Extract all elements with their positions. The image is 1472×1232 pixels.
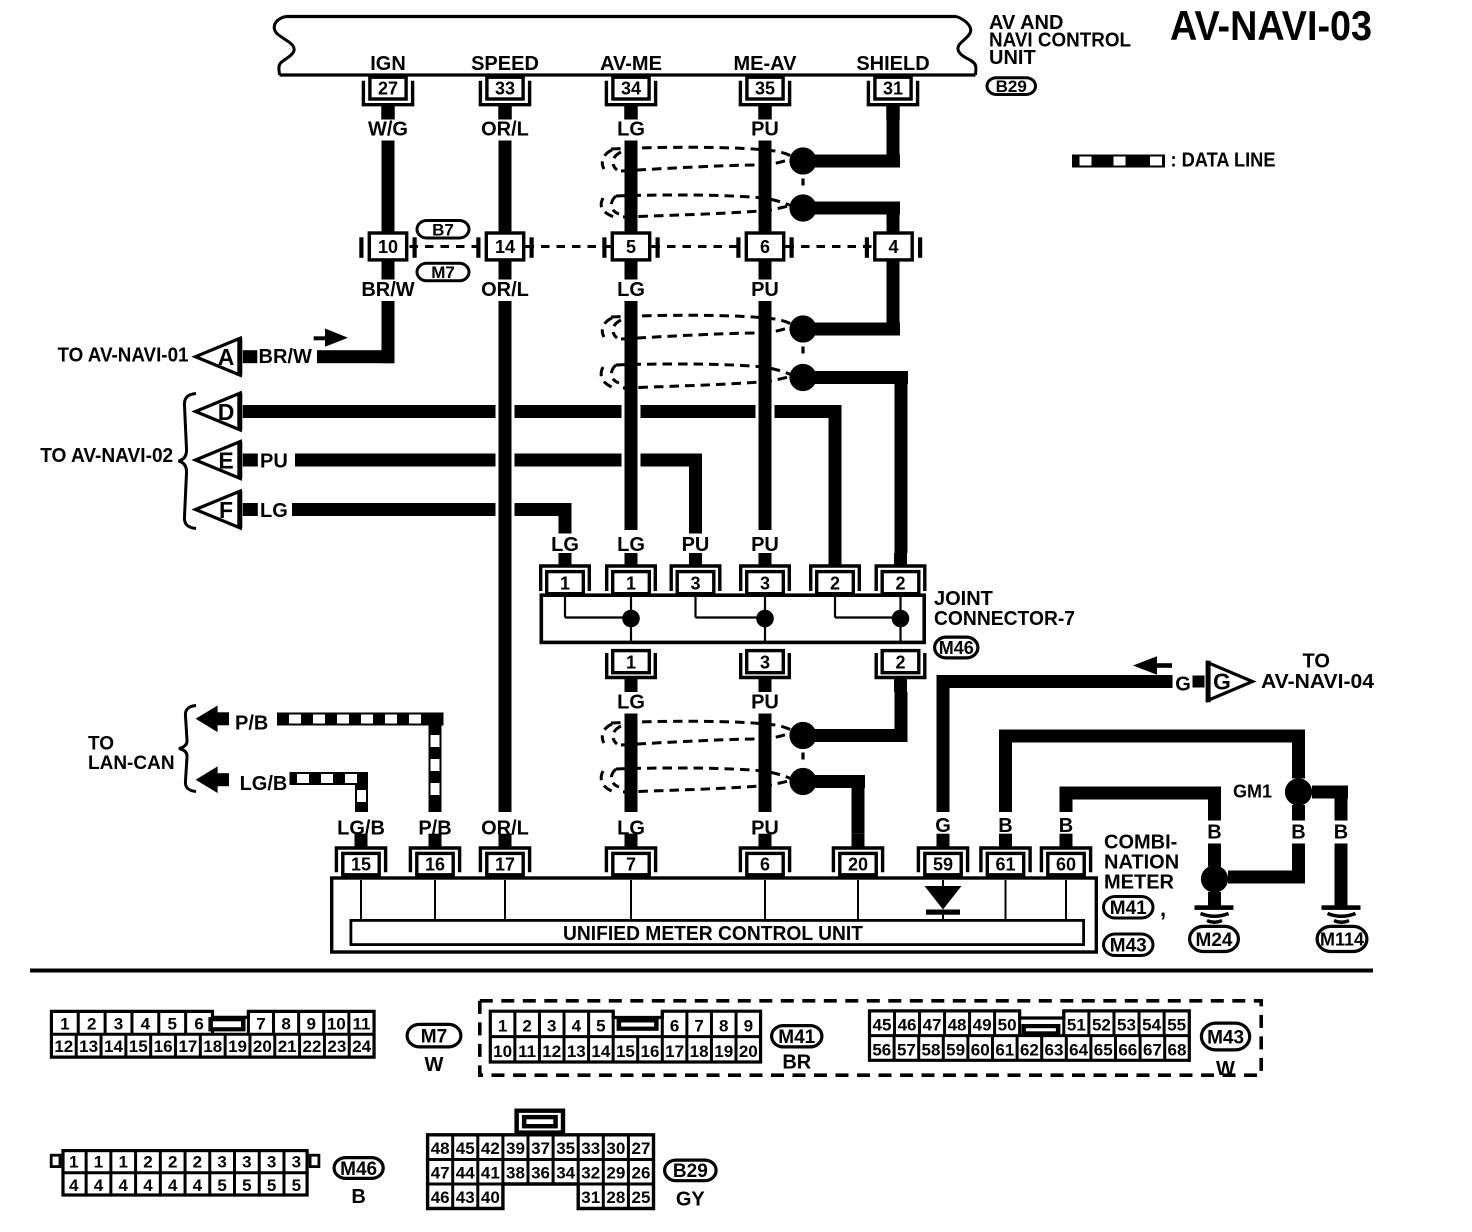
svg-text:11: 11: [352, 1014, 370, 1033]
svg-text:B: B: [1334, 822, 1348, 844]
joint connector top pin 1: [541, 553, 590, 594]
svg-text:M46: M46: [939, 638, 974, 658]
svg-text:20: 20: [253, 1037, 272, 1056]
svg-text:SPEED: SPEED: [471, 53, 539, 75]
shield junction dot E: [789, 722, 816, 749]
svg-text:14: 14: [591, 1042, 610, 1061]
svg-text:4: 4: [888, 237, 898, 257]
svg-text:W/G: W/G: [368, 119, 408, 141]
joint connector top pin 3: [741, 553, 790, 594]
svg-text:62: 62: [1020, 1040, 1039, 1059]
svg-text:49: 49: [973, 1016, 992, 1035]
svg-text:B29: B29: [996, 77, 1027, 96]
svg-text:48: 48: [431, 1139, 450, 1158]
svg-text:32: 32: [581, 1164, 600, 1183]
svg-text:12: 12: [542, 1042, 561, 1061]
wire D horizontal: [243, 405, 842, 418]
svg-text:63: 63: [1045, 1040, 1064, 1059]
junction dot M24: [1201, 865, 1228, 892]
svg-text:30: 30: [606, 1139, 625, 1158]
svg-text:D: D: [218, 399, 235, 425]
svg-text:7: 7: [694, 1017, 703, 1036]
wire PU from joint connector to meter pin 6: [759, 713, 772, 813]
svg-text:46: 46: [898, 1016, 917, 1035]
joint connector internal junction dot 1: [622, 610, 640, 628]
svg-text:1: 1: [94, 1152, 103, 1171]
svg-text:5: 5: [167, 1014, 176, 1033]
connector pin 33 on B29: [480, 77, 529, 119]
shield wire pin 4 down to tube2: [887, 261, 900, 329]
shield wire joint pin 2 down: [895, 692, 908, 742]
svg-text:SHIELD: SHIELD: [856, 53, 929, 75]
joint connector internal junction dot 2: [892, 610, 910, 628]
wire label PU at x=765: [747, 817, 783, 840]
inline connector pin 4 (B7/M7): [865, 233, 922, 260]
svg-text:42: 42: [481, 1139, 500, 1158]
wire label B at x=1066: [1054, 815, 1078, 838]
meter connector pin 59: [918, 834, 967, 875]
connector oval M46: [935, 637, 978, 658]
meter connector pin 6: [740, 834, 789, 875]
shield wire tube2 dot1 horizontal: [803, 323, 900, 336]
svg-text:39: 39: [506, 1139, 525, 1158]
AV and NAVI control unit strip outline: [274, 17, 976, 76]
svg-text:6: 6: [194, 1014, 203, 1033]
wire label LG at x=631: [613, 534, 649, 557]
wire label LG at x=631: [613, 118, 649, 141]
connector oval M43: [1104, 934, 1154, 957]
svg-text:PU: PU: [751, 534, 779, 556]
wire B from pin 60: [1060, 787, 1222, 813]
brace for AV-NAVI-02 arrows: [179, 394, 197, 529]
meter connector pin 61: [981, 834, 1030, 875]
svg-text:LG: LG: [617, 692, 645, 714]
wire B GM1 dot to M114: [1312, 786, 1348, 908]
connector pin 31 on B29: [868, 77, 917, 119]
diode at pin 59: [925, 880, 962, 919]
wire label B at x=1005.5: [994, 815, 1018, 838]
svg-text:UNIT: UNIT: [989, 47, 1036, 69]
svg-text:CONNECTOR-7: CONNECTOR-7: [934, 608, 1075, 630]
data wire LG/B horizontal: [290, 772, 369, 785]
wire LG from joint connector to pin 7: [625, 713, 638, 813]
svg-text:59: 59: [933, 855, 953, 875]
svg-text:6: 6: [760, 237, 770, 257]
wire label B at x=1341: [1329, 821, 1353, 844]
wire PU from pin 35 to pin 6: [759, 140, 772, 232]
inline pin lower stub: [759, 262, 772, 280]
shield wire tube3 dot2 horizontal: [803, 775, 865, 788]
wire LG from pin 5 to joint connector pin 1: [625, 301, 638, 530]
inline connector pin 6 (B7/M7): [736, 233, 793, 260]
shield tube 3 (lower twisted pair): [601, 721, 797, 792]
svg-text:6: 6: [760, 855, 770, 875]
svg-text:,: ,: [1160, 896, 1166, 921]
wire label OR/L at x=505: [478, 118, 532, 141]
connector pin 34 on B29: [606, 77, 655, 119]
combination meter box: [332, 878, 1097, 952]
svg-text:34: 34: [621, 79, 641, 99]
wire B M24 dot to ground: [1208, 892, 1221, 907]
svg-text:10: 10: [493, 1042, 512, 1061]
shield junction dot C: [789, 315, 816, 342]
wire BR/W horizontal to arrow A: [317, 350, 395, 363]
svg-text:TO: TO: [1303, 651, 1330, 673]
data line legend symbol: [1072, 155, 1165, 168]
svg-text:1: 1: [60, 1014, 69, 1033]
svg-text:9: 9: [744, 1017, 753, 1036]
svg-text:LG: LG: [617, 279, 645, 301]
inline pin lower stub: [625, 262, 638, 280]
svg-text:M24: M24: [1196, 930, 1233, 951]
wire label PU at x=695.5: [678, 534, 714, 557]
svg-text:36: 36: [531, 1164, 550, 1183]
wire B GM1 below dot: [1292, 805, 1305, 884]
ground oval M24: [1190, 926, 1239, 951]
svg-text:4: 4: [94, 1176, 104, 1195]
svg-text:3: 3: [217, 1152, 226, 1171]
svg-text:12: 12: [54, 1037, 73, 1056]
arrow A wire stub: [243, 350, 257, 363]
svg-text:M46: M46: [340, 1159, 377, 1180]
connector pinout table M41: [490, 1011, 760, 1062]
svg-text:46: 46: [431, 1188, 450, 1207]
shield tube 2 dot link: [801, 347, 804, 359]
svg-text:3: 3: [760, 574, 770, 594]
joint connector bottom pin 1: [607, 651, 656, 692]
joint connector internal junction dot 3: [756, 610, 774, 628]
meter connector pin 60: [1041, 834, 1090, 875]
svg-text:OR/L: OR/L: [481, 279, 529, 301]
svg-text:5: 5: [217, 1176, 226, 1195]
joint connector internal links: [565, 597, 901, 642]
svg-text:20: 20: [739, 1042, 758, 1061]
connector oval B29: [987, 77, 1036, 96]
svg-text:61: 61: [995, 1040, 1014, 1059]
svg-text:22: 22: [303, 1037, 322, 1056]
wire OR/L from pin 14 to pin 17: [499, 301, 512, 812]
svg-text:3: 3: [114, 1014, 123, 1033]
svg-text:PU: PU: [751, 119, 779, 141]
wire G stub at arrow: [1193, 676, 1205, 688]
svg-text:LG: LG: [617, 119, 645, 141]
svg-text:29: 29: [606, 1164, 625, 1183]
svg-text:67: 67: [1143, 1040, 1162, 1059]
svg-text:55: 55: [1167, 1016, 1186, 1035]
svg-text:5: 5: [267, 1176, 276, 1195]
wire B from pin 61: [999, 730, 1305, 813]
svg-text:27: 27: [631, 1139, 650, 1158]
svg-text:G: G: [1213, 669, 1231, 695]
svg-text:65: 65: [1094, 1040, 1113, 1059]
svg-text:3: 3: [690, 574, 700, 594]
arrow LG/B to LAN-CAN: [196, 766, 229, 793]
svg-text:M7: M7: [421, 1026, 447, 1047]
svg-text:26: 26: [631, 1164, 650, 1183]
svg-text:PU: PU: [682, 534, 710, 556]
wire label LG at x=631: [613, 817, 649, 840]
svg-text:METER: METER: [1104, 872, 1175, 894]
shield wire from pin 31 down: [887, 119, 900, 168]
ground oval M114: [1317, 926, 1367, 951]
svg-text:60: 60: [971, 1040, 990, 1059]
svg-text:4: 4: [141, 1014, 151, 1033]
svg-text:54: 54: [1142, 1016, 1161, 1035]
svg-text:28: 28: [606, 1188, 625, 1207]
svg-text:W: W: [1216, 1058, 1235, 1080]
data wire P/B vertical: [429, 726, 442, 813]
wire G horizontal: [937, 675, 1173, 688]
inline pin lower stub: [382, 262, 395, 280]
junction dot GM1: [1285, 778, 1312, 805]
unit name AV AND NAVI CONTROL UNIT: [989, 12, 1131, 69]
connector oval M46 (table): [334, 1158, 383, 1180]
wire E horizontal: [295, 454, 702, 467]
svg-text:3: 3: [242, 1152, 251, 1171]
svg-text:59: 59: [946, 1040, 965, 1059]
svg-text:37: 37: [531, 1139, 550, 1158]
wire LG from pin 34 to pin 5: [625, 140, 638, 232]
svg-text:M43: M43: [1110, 936, 1147, 957]
svg-text:21: 21: [278, 1037, 297, 1056]
svg-text:GY: GY: [676, 1189, 706, 1211]
svg-text:1: 1: [69, 1152, 78, 1171]
data wire LG/B vertical: [355, 785, 368, 812]
svg-text:ME-AV: ME-AV: [734, 53, 798, 75]
wire label B at x=1214.5: [1203, 821, 1227, 844]
shield wire dot2 horizontal: [803, 202, 900, 215]
shield tube 3 dot link: [801, 753, 804, 765]
joint connector bottom pin 3: [741, 651, 790, 692]
svg-text:9: 9: [306, 1014, 315, 1033]
joint connector top pin 2: [811, 553, 860, 594]
svg-text:13: 13: [79, 1037, 98, 1056]
svg-text:47: 47: [431, 1164, 450, 1183]
svg-text:JOINT: JOINT: [934, 588, 993, 610]
text TO LAN-CAN: [88, 734, 175, 775]
svg-text:E: E: [218, 447, 233, 473]
svg-text:64: 64: [1069, 1040, 1088, 1059]
svg-text:3: 3: [760, 653, 770, 673]
connector oval M41: [1104, 897, 1154, 920]
inline pin lower stub: [499, 262, 512, 280]
svg-text:16: 16: [641, 1042, 660, 1061]
svg-text:LG/B: LG/B: [240, 773, 288, 795]
svg-text:17: 17: [665, 1042, 684, 1061]
svg-text:2: 2: [895, 574, 905, 594]
svg-text:2: 2: [522, 1017, 531, 1036]
svg-text:LAN-CAN: LAN-CAN: [88, 753, 175, 774]
text JOINT CONNECTOR-7: [934, 588, 1075, 630]
svg-text:56: 56: [872, 1040, 891, 1059]
svg-text:24: 24: [352, 1037, 371, 1056]
svg-text:34: 34: [556, 1164, 575, 1183]
svg-text:F: F: [219, 497, 233, 523]
connector oval B7: [417, 220, 469, 239]
svg-text:14: 14: [104, 1037, 123, 1056]
wire BR/W from pin 10 down: [382, 301, 395, 363]
svg-text:1: 1: [560, 574, 570, 594]
wire label OR/L at x=505: [478, 817, 532, 840]
svg-text:PU: PU: [751, 692, 779, 714]
wire F horizontal: [292, 503, 572, 516]
svg-text:4: 4: [69, 1176, 79, 1195]
svg-text:19: 19: [228, 1037, 247, 1056]
svg-text:6: 6: [670, 1017, 679, 1036]
wire label BR/W at x=388: [360, 279, 416, 302]
svg-text:3: 3: [267, 1152, 276, 1171]
meter connector pin 20: [833, 834, 882, 875]
svg-text:14: 14: [495, 237, 515, 257]
connector pinout table M7: [51, 1011, 374, 1057]
wire label LG at x=565: [547, 534, 583, 557]
svg-text:GM1: GM1: [1233, 782, 1272, 802]
svg-text:52: 52: [1092, 1016, 1111, 1035]
arrow connector E: [196, 442, 243, 479]
svg-text:7: 7: [626, 855, 636, 875]
svg-text:31: 31: [581, 1188, 600, 1207]
svg-text:4: 4: [572, 1017, 582, 1036]
svg-text:W: W: [425, 1054, 444, 1076]
svg-text:44: 44: [456, 1164, 475, 1183]
svg-text:20: 20: [848, 855, 868, 875]
arrow connector G: [1206, 661, 1253, 703]
svg-text:BR/W: BR/W: [361, 279, 414, 301]
svg-text:8: 8: [719, 1017, 728, 1036]
shield tube 1 dot link: [801, 179, 804, 191]
dashed frame around combination meter connectors: [480, 1001, 1261, 1075]
svg-text:58: 58: [922, 1040, 941, 1059]
svg-text:15: 15: [616, 1042, 635, 1061]
connector oval M43 (table): [1201, 1023, 1249, 1050]
svg-text:10: 10: [378, 237, 398, 257]
svg-text:2: 2: [830, 574, 840, 594]
svg-text:15: 15: [129, 1037, 148, 1056]
svg-text:AV-NAVI-04: AV-NAVI-04: [1261, 671, 1375, 693]
wire label W/G at x=388: [363, 118, 413, 141]
svg-text:1: 1: [626, 653, 636, 673]
svg-text:10: 10: [327, 1014, 346, 1033]
wire label PU at x=765: [747, 279, 783, 302]
svg-text:COMBI-: COMBI-: [1104, 832, 1177, 854]
svg-text:45: 45: [456, 1139, 475, 1158]
joint connector body M46: [541, 595, 924, 642]
joint connector top pin 1: [607, 553, 656, 594]
svg-text:45: 45: [873, 1016, 892, 1035]
ground symbol M24: [1195, 905, 1234, 922]
meter connector pin 16: [410, 834, 459, 875]
svg-text:2: 2: [143, 1152, 152, 1171]
svg-text:19: 19: [714, 1042, 733, 1061]
meter connector pin 17: [480, 834, 529, 875]
svg-text:50: 50: [998, 1016, 1017, 1035]
wire label P/B at x=435: [412, 817, 458, 840]
direction arrow left: [1133, 656, 1172, 674]
wire label PU at x=765: [747, 118, 783, 141]
connector oval B29 (table): [665, 1160, 717, 1182]
wire B pin61 elbow down to GM1: [1292, 743, 1305, 779]
svg-text:M41: M41: [1110, 898, 1147, 919]
svg-text:25: 25: [631, 1188, 650, 1207]
svg-text:PU: PU: [751, 279, 779, 301]
wire E vertical to joint pin 3: [689, 454, 702, 554]
svg-text:2: 2: [895, 653, 905, 673]
wire label LG/B at x=361: [334, 817, 388, 840]
svg-text:5: 5: [596, 1017, 605, 1036]
svg-text:P/B: P/B: [235, 713, 268, 735]
wire G vertical from pin 59: [937, 688, 950, 812]
inline connector pin 5 (B7/M7): [602, 233, 659, 260]
arrow connector F: [196, 491, 243, 528]
data wire P/B horizontal: [277, 713, 444, 726]
svg-text:51: 51: [1067, 1016, 1086, 1035]
svg-text:38: 38: [506, 1164, 525, 1183]
svg-text:BR/W: BR/W: [259, 346, 312, 368]
shield tube 1 (upper twisted pair): [601, 147, 797, 217]
svg-text:M43: M43: [1207, 1027, 1244, 1048]
svg-text:M41: M41: [778, 1027, 815, 1048]
wire B M24 junction horizontal: [1228, 871, 1305, 884]
svg-text:53: 53: [1117, 1016, 1136, 1035]
svg-text:4: 4: [118, 1176, 128, 1195]
svg-text:UNIFIED METER CONTROL UNIT: UNIFIED METER CONTROL UNIT: [563, 923, 863, 945]
svg-text:1: 1: [498, 1017, 507, 1036]
svg-text:48: 48: [948, 1016, 967, 1035]
svg-text:4: 4: [168, 1176, 178, 1195]
wire D vertical to joint pin 2: [829, 405, 842, 553]
shield wire dot2 to pin 4: [887, 208, 900, 232]
shield wire tube2 dot2 horizontal: [803, 371, 908, 384]
wire label B at x=1298.5: [1287, 821, 1311, 844]
svg-text:B: B: [1207, 822, 1221, 844]
svg-text:PU: PU: [260, 451, 288, 473]
connector pinout table B29: [428, 1109, 654, 1209]
text TO AV-NAVI-04: [1261, 651, 1375, 694]
shield wire tube2 to joint pin 2: [895, 371, 908, 553]
svg-text:31: 31: [883, 79, 903, 99]
wire label OR/L at x=505: [478, 279, 532, 302]
wire F vertical to joint pin 1: [559, 503, 572, 553]
connector oval M7: [417, 263, 469, 282]
svg-text:5: 5: [292, 1176, 301, 1195]
svg-text:TO AV-NAVI-01: TO AV-NAVI-01: [58, 345, 189, 367]
svg-text:1: 1: [118, 1152, 127, 1171]
svg-text:AV-NAVI-03: AV-NAVI-03: [1170, 2, 1372, 49]
connector pinout table M46: [51, 1149, 319, 1197]
svg-text:2: 2: [193, 1152, 202, 1171]
svg-text:35: 35: [556, 1139, 575, 1158]
svg-text:33: 33: [495, 79, 515, 99]
shield wire dot1 horizontal: [803, 155, 900, 168]
svg-text:LG: LG: [260, 500, 288, 522]
svg-text:B: B: [351, 1186, 365, 1208]
svg-text:35: 35: [755, 79, 775, 99]
svg-text:4: 4: [143, 1176, 153, 1195]
svg-text:NATION: NATION: [1104, 852, 1179, 874]
svg-text:43: 43: [456, 1188, 475, 1207]
unified meter control unit inner box: [351, 920, 1084, 944]
svg-text:15: 15: [351, 855, 371, 875]
shield wire tube3 dot1 horizontal: [803, 729, 908, 742]
connector pinout table M43: [870, 1011, 1190, 1060]
wire label G at x=943: [930, 815, 956, 838]
svg-text:1: 1: [626, 574, 636, 594]
svg-text:33: 33: [581, 1139, 600, 1158]
svg-text:G: G: [1175, 674, 1191, 696]
joint connector bottom pin 2: [876, 651, 925, 692]
svg-text:M114: M114: [1320, 929, 1364, 949]
shield junction dot F: [789, 768, 816, 795]
